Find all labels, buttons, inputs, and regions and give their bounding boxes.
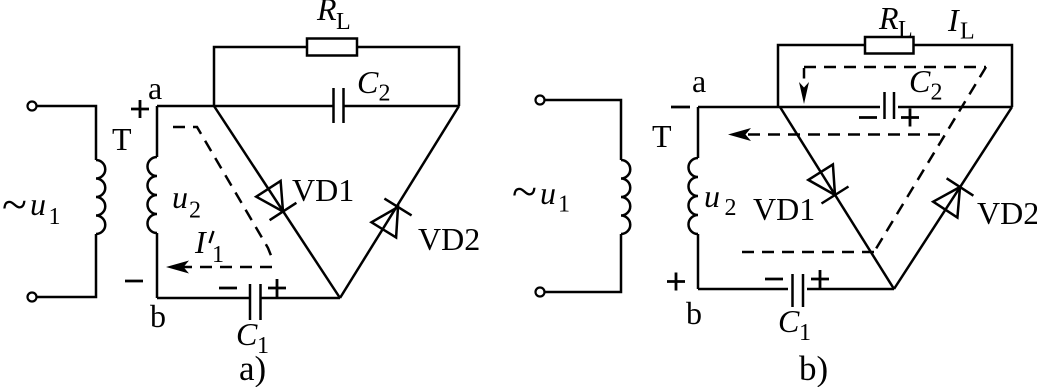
svg-text:1: 1 [49, 204, 61, 230]
svg-text:C: C [236, 316, 258, 352]
svg-text:u: u [704, 178, 720, 214]
plus sign of C1 (a) [268, 279, 286, 297]
dashed current loop bottom (b) [735, 251, 874, 254]
svg-text:I: I [947, 2, 960, 38]
capacitor C2 (b) [885, 92, 895, 119]
capacitor C1 (b) [793, 274, 804, 307]
dashed arrow segment I'1 (a) [180, 266, 272, 269]
terminal circle top (primary input a) [28, 102, 37, 111]
svg-text:a): a) [239, 349, 266, 387]
capacitor C1 (a) [250, 284, 261, 320]
svg-text:2: 2 [189, 198, 201, 224]
wire bottom with C1 (b) [698, 288, 894, 291]
dashed current loop top (b) [804, 66, 986, 69]
svg-text:R: R [878, 0, 899, 36]
minus sign near node a (b) [671, 106, 690, 109]
wire node a horizontal with C2 (b) [698, 106, 1012, 109]
diode VD1 (a) [256, 181, 296, 220]
minus sign near node b (a) [125, 280, 143, 283]
wire bottom with C1 (a) [157, 297, 340, 300]
svg-text:a: a [148, 70, 162, 106]
dashed current loop diagonal (b) [874, 67, 986, 252]
svg-text:L: L [336, 9, 351, 35]
primary winding of transformer T (b) [621, 160, 630, 234]
resistor RL box (a) [307, 39, 357, 56]
svg-text:u: u [30, 186, 46, 222]
svg-text:C: C [778, 303, 800, 339]
svg-text:u: u [172, 179, 188, 215]
minus sign of C2 (b) [859, 116, 877, 119]
arrowhead pointing left (b) [728, 128, 751, 141]
terminal circle bottom (primary input a) [28, 293, 37, 302]
svg-text:2: 2 [931, 80, 943, 106]
wire triangle right edge (a) [340, 106, 459, 298]
dashed corner tick down (b) [803, 68, 806, 79]
svg-text:~: ~ [512, 166, 537, 217]
svg-text:1: 1 [212, 242, 224, 268]
wire secondary vertical (b) [697, 107, 700, 289]
svg-text:C: C [357, 64, 379, 100]
wire primary bottom [37, 234, 97, 297]
svg-text:1: 1 [799, 320, 811, 346]
terminal circle bottom (primary input b) [536, 288, 545, 297]
plus sign of C2 (b) [901, 109, 919, 127]
svg-text:C: C [909, 63, 931, 99]
svg-text:T: T [652, 118, 672, 154]
svg-text:b): b) [799, 349, 828, 387]
svg-text:VD2: VD2 [418, 221, 480, 257]
svg-text:VD2: VD2 [977, 195, 1037, 231]
svg-text:b: b [150, 298, 166, 334]
diode VD1 (b) [808, 164, 848, 203]
svg-text:~: ~ [2, 179, 27, 230]
svg-text:1: 1 [558, 192, 570, 218]
minus sign of C1 (a) [219, 287, 237, 290]
svg-text:VD1: VD1 [753, 191, 815, 227]
dashed current path I'1 (a) [173, 127, 272, 262]
diode VD2 (a) [372, 199, 412, 238]
terminal circle top (primary input b) [536, 96, 545, 105]
secondary winding of transformer T (a) [148, 157, 158, 233]
wire primary top (b) [545, 100, 622, 160]
wire secondary vertical (a) [156, 106, 159, 298]
plus sign near node b (b) [667, 273, 685, 291]
dashed arrow segment mid (b) [744, 133, 940, 136]
arrowhead I'1 pointing left (a) [166, 261, 189, 274]
secondary winding of transformer T (b) [689, 158, 699, 234]
wire primary top [37, 106, 97, 160]
svg-text:a: a [692, 63, 706, 99]
svg-text:VD1: VD1 [292, 172, 354, 208]
resistor RL box (b) [865, 37, 914, 54]
plus sign of C1 (b) [811, 270, 829, 288]
svg-text:L: L [898, 17, 913, 43]
svg-text:L: L [960, 19, 975, 45]
svg-text:T: T [112, 121, 132, 157]
wire triangle right edge (b) [894, 107, 1012, 289]
wire triangle left edge (b) [780, 107, 894, 289]
svg-text:2: 2 [379, 81, 391, 107]
wire RL branch (a) [214, 47, 459, 106]
wire primary bottom (b) [545, 234, 622, 292]
wire triangle left edge (a) [214, 106, 340, 298]
svg-text:I: I [194, 224, 207, 260]
svg-text:u: u [540, 175, 556, 211]
plus sign near node a (a) [131, 100, 149, 118]
arrowhead pointing down (b) [799, 82, 809, 104]
svg-text:2: 2 [725, 195, 737, 221]
svg-text:b: b [686, 295, 702, 331]
wire node a horizontal with C2 (a) [157, 105, 459, 108]
minus sign of C1 (b) [765, 278, 783, 281]
primary winding of transformer T (a) [96, 160, 105, 234]
wire RL branch (b) [778, 45, 1012, 107]
diode VD2 (b) [933, 178, 973, 217]
svg-text:R: R [316, 0, 337, 27]
capacitor C2 (a) [334, 88, 344, 123]
